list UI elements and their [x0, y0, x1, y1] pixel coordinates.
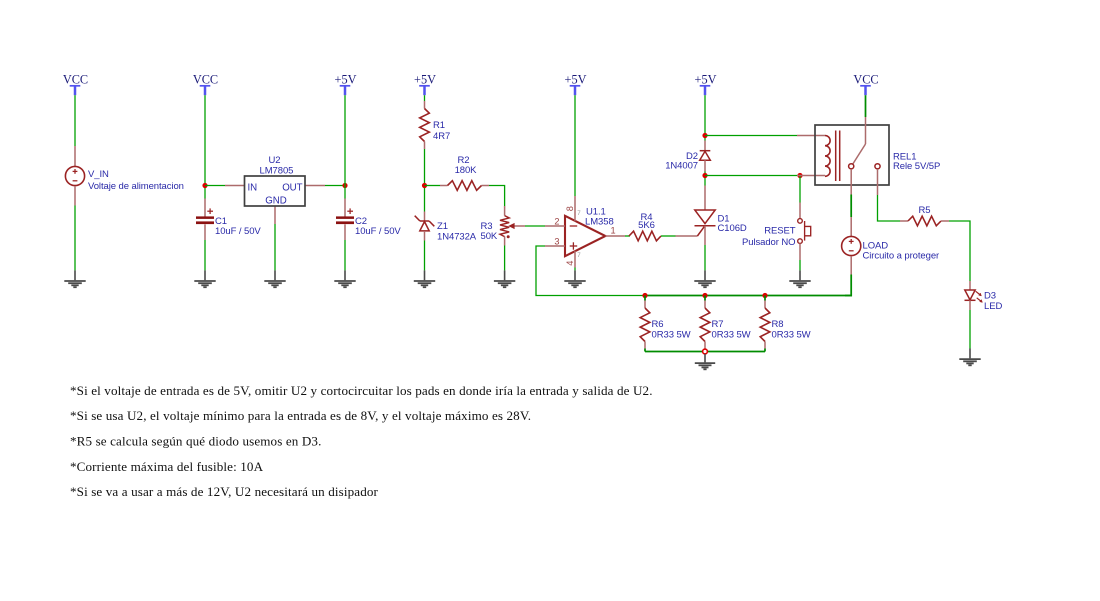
ground U2	[264, 270, 285, 287]
svg-text:*R5 se calcula según qué diodo: *R5 se calcula según qué diodo usemos en…	[70, 434, 321, 449]
node junction VCC-C1-U2.IN	[202, 183, 207, 188]
resistor R1	[420, 101, 430, 149]
ground D1	[694, 270, 715, 287]
power symbol VCC net input column	[193, 73, 218, 96]
wire R5 to D3	[949, 221, 970, 281]
wire relay NO contact to R5	[878, 195, 901, 221]
svg-text:VCC: VCC	[853, 73, 878, 87]
svg-text:4: 4	[565, 261, 575, 266]
svg-text:+5V: +5V	[565, 73, 587, 87]
node junction D2-D1-RESET wire	[702, 173, 707, 178]
wire RESET to ground	[799, 260, 801, 270]
resistor R6	[640, 296, 650, 352]
svg-text:+5V: +5V	[414, 73, 436, 87]
resistor R5	[900, 216, 949, 226]
svg-text:1N4732A: 1N4732A	[437, 231, 477, 242]
wire relay contact to LOAD	[850, 195, 852, 218]
svg-text:LM358: LM358	[585, 217, 614, 228]
node junction R6 top	[642, 293, 647, 298]
power symbol +5V net R1 column	[414, 73, 436, 96]
wire R1 to junction and Z1	[424, 149, 426, 212]
svg-text:*Si el voltaje de entrada es d: *Si el voltaje de entrada es de 5V, omit…	[70, 383, 653, 398]
wire U2 GND to ground	[274, 224, 276, 270]
wire VCC to relay common	[865, 95, 867, 117]
node junction +5V-D2-relay coil	[702, 133, 707, 138]
svg-text:3: 3	[554, 237, 559, 247]
wire +5V to op-amp pin 8	[574, 95, 576, 196]
wire shunt bottom bus	[645, 351, 765, 353]
node junction R1-R2-Z1	[422, 183, 427, 188]
wire Z1 to ground	[424, 241, 426, 271]
svg-text:7: 7	[577, 210, 581, 217]
wire junction to relay coil top	[705, 135, 797, 137]
svg-text:Pulsador NO: Pulsador NO	[742, 237, 796, 248]
wire VCC to V_IN	[74, 95, 76, 146]
ground Z1	[414, 270, 435, 287]
svg-text:R2: R2	[458, 155, 470, 166]
wire C1 to ground	[204, 240, 206, 270]
resistor R7	[700, 296, 710, 352]
svg-text:VCC: VCC	[63, 73, 88, 87]
wire VCC to C1	[204, 95, 206, 198]
svg-text:8: 8	[565, 206, 575, 211]
regulator U2 LM7805	[225, 176, 325, 224]
relay REL1	[797, 117, 889, 195]
svg-text:VCC: VCC	[193, 73, 218, 87]
svg-text:0R33 5W: 0R33 5W	[772, 329, 811, 340]
svg-text:*Corriente máxima del fusible:: *Corriente máxima del fusible: 10A	[70, 459, 264, 474]
wire LOAD to sense bus	[845, 275, 851, 296]
wire junction to RESET	[799, 176, 801, 203]
svg-text:2: 2	[554, 216, 559, 226]
wire +5V to C2	[344, 95, 346, 198]
voltage source V_IN	[65, 146, 84, 206]
wire junction to relay coil bottom	[705, 175, 797, 177]
svg-text:0R33 5W: 0R33 5W	[652, 329, 691, 340]
svg-text:R1: R1	[433, 120, 445, 131]
svg-text:180K: 180K	[455, 165, 478, 176]
svg-text:10uF / 50V: 10uF / 50V	[215, 226, 261, 237]
wire R3 wiper to op-amp pin 2	[525, 225, 545, 227]
power symbol VCC net relay common	[853, 73, 878, 96]
ground C1	[194, 270, 215, 287]
wire junction to U2 IN	[205, 185, 225, 187]
wire V_IN to ground	[74, 206, 76, 271]
thyristor D1	[676, 186, 716, 246]
power symbol +5V net C2 column	[335, 73, 357, 96]
svg-text:0R33 5W: 0R33 5W	[712, 329, 751, 340]
svg-text:7: 7	[577, 252, 581, 259]
svg-text:+5V: +5V	[335, 73, 357, 87]
svg-text:RESET: RESET	[764, 225, 796, 236]
wire D1 cathode to ground	[704, 245, 706, 270]
wire junction to R2	[425, 185, 441, 187]
potentiometer R3	[500, 206, 525, 246]
power symbol +5V net op-amp supply	[565, 73, 587, 96]
wire sense bus	[643, 295, 852, 297]
svg-text:Circuito a proteger: Circuito a proteger	[863, 251, 940, 262]
ground C2	[334, 270, 355, 287]
svg-text:Rele 5V/5P: Rele 5V/5P	[893, 161, 940, 172]
zener diode Z1	[415, 212, 435, 241]
pushbutton RESET	[798, 203, 811, 261]
wire +5V to D2 junction	[704, 95, 706, 140]
svg-text:GND: GND	[265, 195, 286, 206]
node junction R8 top	[762, 293, 767, 298]
wire op-amp pin 4 to ground	[574, 268, 576, 271]
node junction OUT-C2-+5V	[342, 183, 347, 188]
resistor R8	[760, 296, 770, 352]
power symbol +5V net D2 column	[695, 73, 717, 96]
svg-text:LED: LED	[984, 301, 1002, 312]
node junction R7 top	[702, 293, 707, 298]
svg-text:IN: IN	[248, 182, 258, 193]
diode D2	[700, 141, 711, 172]
wire +5V to R1	[424, 95, 426, 101]
svg-text:Voltaje de alimentacion: Voltaje de alimentacion	[88, 181, 184, 192]
ground RESET	[789, 270, 810, 287]
node junction shunt ground ring	[703, 349, 708, 354]
ground R3	[494, 270, 515, 287]
wire pin 3 feedback loop	[536, 246, 645, 296]
wire op-amp output to R4	[625, 235, 630, 237]
wire D2 anode to D1 junction	[704, 172, 706, 186]
capacitor C1	[196, 199, 214, 241]
svg-text:*Si se va a usar a más de 12V,: *Si se va a usar a más de 12V, U2 necesi…	[70, 484, 379, 499]
wire R4 to D1 gate	[661, 235, 676, 237]
ground V_IN	[64, 270, 85, 287]
svg-text:1N4007: 1N4007	[665, 161, 698, 172]
svg-text:OUT: OUT	[282, 182, 302, 193]
power symbol VCC net V_IN column	[63, 73, 88, 96]
ground D3	[959, 349, 980, 366]
svg-text:5K6: 5K6	[638, 220, 655, 231]
resistor R4	[629, 231, 661, 241]
wire R3 to ground	[504, 246, 506, 271]
svg-text:C106D: C106D	[718, 223, 747, 234]
ground shunt bus	[695, 354, 715, 369]
load source symbol LOAD	[842, 217, 861, 275]
capacitor C2	[336, 199, 354, 241]
svg-text:Z1: Z1	[437, 221, 448, 232]
wire U2 OUT to +5V column	[325, 185, 345, 187]
wire C2 to ground	[344, 240, 346, 270]
svg-text:V_IN: V_IN	[88, 169, 109, 180]
svg-text:*Si se usa U2, el voltaje míni: *Si se usa U2, el voltaje mínimo para la…	[70, 408, 531, 423]
svg-text:LM7805: LM7805	[260, 165, 294, 176]
resistor R2	[440, 181, 489, 191]
op-amp U1.1 LM358	[545, 196, 625, 268]
svg-text:R5: R5	[919, 205, 931, 216]
svg-text:4R7: 4R7	[433, 131, 450, 142]
wire D3 to ground	[969, 310, 971, 349]
svg-text:10uF / 50V: 10uF / 50V	[355, 226, 401, 237]
LED D3	[965, 281, 983, 310]
svg-text:50K: 50K	[481, 231, 498, 242]
wire R2 to R3 top	[489, 186, 505, 207]
svg-text:U2: U2	[269, 155, 281, 166]
node junction RESET tap	[797, 173, 802, 178]
svg-text:+5V: +5V	[695, 73, 717, 87]
ground op-amp	[564, 270, 585, 287]
